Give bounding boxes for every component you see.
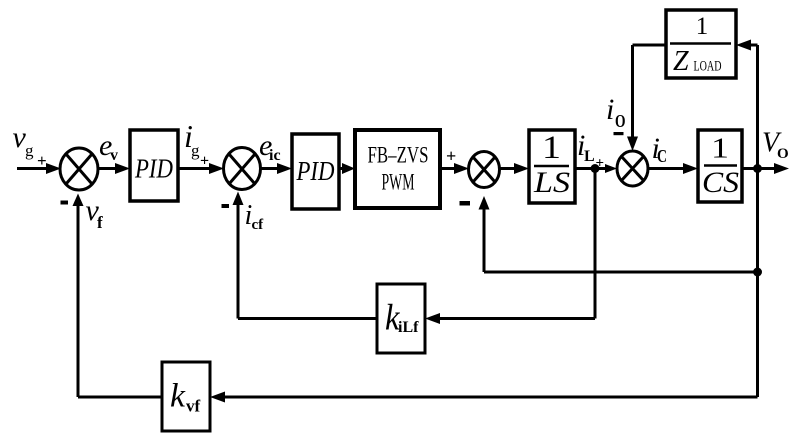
wire fb to S3 <box>484 271 758 274</box>
svg-text:LOAD: LOAD <box>694 59 722 75</box>
node junction Vo <box>753 164 762 173</box>
svg-text:C: C <box>657 146 667 166</box>
block 1/LS <box>529 130 575 203</box>
summing junction S4 <box>617 151 648 186</box>
node junction iL <box>591 164 600 173</box>
svg-text:+: + <box>200 153 209 170</box>
minus sign at S2 feedback input <box>222 204 230 208</box>
wire PID2 to PWM <box>339 167 344 170</box>
summing junction S2 <box>224 148 261 190</box>
svg-text:iLf: iLf <box>398 319 419 336</box>
wire input vg <box>17 167 48 170</box>
block 1/CS <box>698 130 742 202</box>
svg-text:1: 1 <box>542 130 561 166</box>
svg-text:k: k <box>170 378 186 415</box>
minus sign at S1 feedback input <box>61 201 69 205</box>
svg-text:i: i <box>606 93 614 126</box>
wire Vo up to Zload <box>756 45 759 169</box>
wire kiLf to S2 <box>238 317 377 320</box>
svg-text:FB–ZVS: FB–ZVS <box>368 143 429 168</box>
wire LS to S4 <box>575 167 606 170</box>
svg-text:L: L <box>584 148 595 165</box>
node junction fb <box>753 268 762 277</box>
wire Zload to S4 <box>633 44 667 47</box>
wire CS to output Vo <box>742 167 774 170</box>
svg-text:LS: LS <box>533 166 570 199</box>
wire S3 to LS <box>500 167 516 170</box>
svg-text:1: 1 <box>711 133 729 165</box>
block PID1 <box>130 130 178 201</box>
wire PWM to S3 <box>440 167 456 170</box>
summing junction S1 <box>60 148 98 190</box>
block 1/Zload <box>666 10 736 78</box>
svg-text:PID: PID <box>296 156 335 186</box>
svg-text:CS: CS <box>702 166 739 199</box>
svg-text:ic: ic <box>269 147 281 164</box>
svg-text:vf: vf <box>186 397 201 416</box>
svg-text:v: v <box>110 147 118 164</box>
block FB-ZVS PWM <box>355 130 440 208</box>
wire kvf to S1 <box>78 396 162 399</box>
block kiLf <box>377 284 425 353</box>
summing junction S3 <box>469 152 500 188</box>
block kvf <box>162 362 210 431</box>
wire Vo down <box>756 169 759 398</box>
wire PID1 to S2 <box>178 167 211 170</box>
block PID2 <box>292 134 339 209</box>
svg-text:g: g <box>25 141 34 160</box>
minus sign at S4 io input <box>614 132 624 135</box>
svg-text:+: + <box>446 146 456 166</box>
svg-text:O: O <box>615 111 626 131</box>
svg-text:PID: PID <box>134 154 173 184</box>
wire S1 to PID1 <box>98 167 117 170</box>
wire fb to kvf <box>221 396 758 399</box>
wire iL down to kiLf <box>594 169 597 319</box>
svg-text:+: + <box>37 151 47 170</box>
svg-text:O: O <box>777 146 789 162</box>
wire S4 to CS <box>648 167 685 170</box>
wire S2 to PID2 <box>260 167 279 170</box>
svg-text:PWM: PWM <box>382 170 415 195</box>
svg-text:Z: Z <box>673 46 689 77</box>
minus sign at S3 feedback input <box>460 201 471 206</box>
svg-text:g: g <box>191 141 200 160</box>
svg-text:cf: cf <box>252 217 265 233</box>
svg-text:f: f <box>97 213 103 232</box>
svg-text:1: 1 <box>696 13 709 40</box>
